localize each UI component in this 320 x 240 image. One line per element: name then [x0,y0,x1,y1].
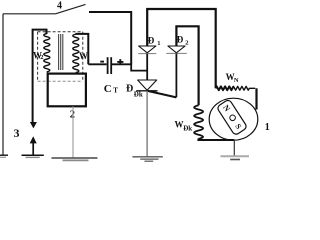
rotor pivot circle [230,115,236,121]
switch 4 blade [56,4,86,13]
ground under magneto [220,156,249,159]
wire: W2 top staple to spark-gap line [33,30,47,123]
svg-text:2: 2 [40,54,43,61]
transformer dashed box [38,32,83,82]
diode D2 [166,46,187,53]
spark gap 3: down arrow [30,122,37,128]
svg-text:3: 3 [14,126,20,140]
wire: node to thyristor anode line [131,64,147,71]
wire: top-left horizontal to switch [3,13,56,15]
wire: D2 cathode down to gate junction [175,53,177,97]
svg-text:2: 2 [185,40,188,47]
svg-text:Đ: Đ [126,83,133,94]
ground (bottom-left, partial) [0,155,8,157]
capacitor CT wire left [88,63,106,65]
svg-text:Đ: Đ [148,36,155,46]
thyristor gate wire [148,91,176,97]
ground under thyristor [132,157,162,161]
wire: WDk bottom to magneto frame [198,139,234,141]
capacitor CT plates [107,57,109,74]
magneto 1: stator circle [209,98,258,140]
ground under spark gap [22,155,44,157]
thyristor DDk [136,80,157,91]
svg-text:1: 1 [157,40,160,47]
wire: D1 cathode down to thyristor [146,54,148,80]
box 2 (ignition coil body) [48,74,86,107]
magneto rotor magnet [216,99,247,136]
resistor WN bold left half (scan weight) [216,86,234,90]
resistor WN [216,86,256,90]
diode D1 [138,46,156,54]
svg-text:N: N [234,77,239,84]
wire: WN right end down to magneto [255,88,257,109]
wire: switch to C_T node (top, thick) [89,12,131,64]
label plus [117,59,123,65]
resistor WDk [194,105,203,139]
svg-text:2: 2 [70,110,75,121]
svg-text:4: 4 [57,1,62,12]
capacitor CT wire right [112,63,131,65]
wire: W1 top staple to capacitor [76,34,89,64]
svg-text:1: 1 [265,122,270,133]
svg-text:Đ: Đ [177,35,184,45]
spark gap 3: up arrow [32,139,34,155]
svg-text:T: T [113,87,118,95]
svg-text:C: C [104,83,112,95]
winding W2 [44,34,50,72]
wire: box 2 to ground (gray) [72,106,74,157]
winding W1 [73,34,79,72]
wire: left vertical down to ground [2,14,4,155]
inner loop top wire (D2 to WDk) [176,26,198,105]
label minus [100,61,104,63]
wire: magneto to ground [233,140,235,156]
wire: thyristor cathode to ground [146,91,148,157]
outer loop top wire (D1 to WN) [147,9,216,88]
svg-text:W: W [175,120,184,130]
ground under box 2 [52,158,98,160]
svg-text:Đk: Đk [134,91,143,99]
svg-text:Đk: Đk [183,125,192,133]
transformer core [59,34,63,70]
